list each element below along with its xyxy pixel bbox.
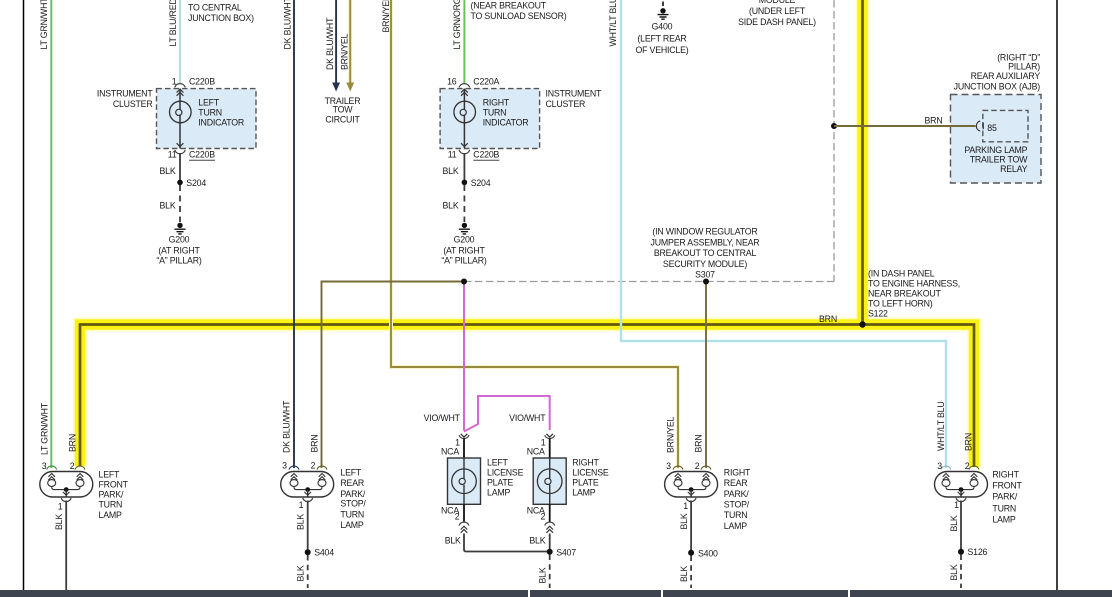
svg-text:11: 11 [168,150,177,160]
svg-text:PLATE: PLATE [572,477,599,487]
wire BLK below left front lamp [65,501,67,591]
svg-text:TURN: TURN [198,108,222,118]
connector C220A pin 16 arc (right cluster) [459,84,470,88]
node junction dot module line to BRN/VIO [461,279,467,285]
svg-text:“A” PILLAR): “A” PILLAR) [441,256,486,266]
svg-text:RIGHT: RIGHT [724,467,751,477]
svg-text:2: 2 [695,461,700,471]
wire BRN/YEL stub to trailer tow [346,0,354,92]
connector pin 85 arc [976,121,983,131]
svg-text:STOP/: STOP/ [724,500,750,510]
svg-text:BLK: BLK [296,565,306,581]
svg-text:3: 3 [666,461,671,471]
svg-text:C220B: C220B [473,150,499,160]
svg-text:BLK: BLK [159,166,175,176]
svg-text:BLK: BLK [529,536,545,546]
svg-text:LAMP: LAMP [340,520,363,530]
svg-text:BRN: BRN [694,435,704,453]
wire BRN to parking lamp relay pin 85 [834,125,976,127]
module internal dashed line horizontal [464,281,834,283]
svg-text:2: 2 [70,461,75,471]
svg-text:TO CENTRAL: TO CENTRAL [188,3,242,13]
svg-text:TURN: TURN [992,504,1016,514]
svg-text:TRAILER TOW: TRAILER TOW [970,154,1028,164]
svg-text:DK BLU/WHT: DK BLU/WHT [282,400,292,453]
svg-text:LEFT: LEFT [340,467,362,477]
svg-text:LT GRN/WHT: LT GRN/WHT [39,0,49,50]
svg-text:11: 11 [448,150,457,160]
svg-text:C220B: C220B [189,150,215,160]
svg-text:TURN: TURN [99,500,123,510]
svg-text:1: 1 [58,502,63,512]
svg-text:S307: S307 [695,269,715,279]
lamp LEFT LICENSE PLATE LAMP [448,434,481,505]
svg-text:LEFT: LEFT [198,98,220,108]
wire BLK dashed below S400 [690,556,692,589]
svg-text:S126: S126 [968,547,988,557]
svg-text:NCA: NCA [527,446,545,456]
node S122 junction dot [859,321,865,327]
svg-text:INSTRUMENT: INSTRUMENT [97,89,153,99]
svg-text:S400: S400 [698,548,718,558]
svg-text:BLK: BLK [679,566,689,582]
svg-text:(UNDER LEFT: (UNDER LEFT [749,6,806,16]
node junction dot on module line at relay branch [831,123,837,129]
svg-text:LAMP: LAMP [572,488,595,498]
svg-text:PARK/: PARK/ [724,489,750,499]
svg-text:3: 3 [42,461,47,471]
svg-text:WHT/LT BLU: WHT/LT BLU [936,402,946,451]
svg-text:JUNCTION BOX): JUNCTION BOX) [188,13,254,23]
svg-text:(IN WINDOW REGULATOR: (IN WINDOW REGULATOR [652,227,757,237]
svg-text:INDICATOR: INDICATOR [483,118,529,128]
svg-text:16: 16 [447,76,457,86]
svg-text:WHT/LT BLU: WHT/LT BLU [608,0,618,47]
svg-text:S204: S204 [186,178,206,188]
svg-text:C220A: C220A [473,76,499,86]
wire DK BLU/WHT vertical long [293,0,295,468]
instrument cluster U1 box (left) [157,89,257,149]
wire BLK dashed to G200 (left) [179,185,181,222]
ground G200 (right) [459,223,470,234]
svg-text:BREAKOUT TO CENTRAL: BREAKOUT TO CENTRAL [654,248,757,258]
svg-text:LICENSE: LICENSE [487,467,524,477]
svg-text:1: 1 [299,500,304,510]
lamp LEFT TURN INDICATOR internals [170,89,192,149]
svg-text:TO ENGINE HARNESS,: TO ENGINE HARNESS, [868,279,960,289]
svg-text:RELAY: RELAY [1000,164,1028,174]
svg-text:BLK: BLK [54,514,64,530]
svg-text:(AT RIGHT: (AT RIGHT [158,245,200,255]
svg-text:CIRCUIT: CIRCUIT [325,115,360,125]
frame left border line [23,0,25,590]
svg-text:BLK: BLK [296,514,306,530]
wire BLK from right license lamp to S407 [549,534,551,552]
svg-text:(AT RIGHT: (AT RIGHT [443,245,485,255]
wire BRN from S307 to right rear lamp pin2 [705,282,707,469]
node S400 [688,550,694,556]
svg-text:85: 85 [987,123,997,133]
svg-text:BRN/YEL: BRN/YEL [666,416,676,453]
wire WHT/LT BLU to right front lamp pin3 [621,0,946,468]
svg-text:2: 2 [965,461,970,471]
svg-text:TO LEFT HORN): TO LEFT HORN) [868,299,933,309]
svg-text:2: 2 [311,461,316,471]
module internal dashed line vertical [833,0,835,282]
lamp RIGHT TURN INDICATOR internals [454,89,476,149]
svg-text:INDICATOR: INDICATOR [198,118,244,128]
lamp LEFT REAR PARK/STOP/TURN LAMP [281,466,334,501]
svg-text:BRN/YEL: BRN/YEL [340,33,350,70]
wire highlighted BRN (yellow) net: left front lamp pin2 to right front lamp pin2 and up [80,0,974,467]
connector C220B pin 1 arc (left cluster) [175,84,186,88]
node S204 (left) [177,180,183,186]
svg-text:SECURITY MODULE): SECURITY MODULE) [663,259,747,269]
svg-text:TURN: TURN [340,509,364,519]
svg-text:(LEFT REAR: (LEFT REAR [637,34,686,44]
svg-text:JUNCTION BOX (AJB): JUNCTION BOX (AJB) [954,81,1041,91]
svg-text:FRONT: FRONT [992,481,1022,491]
wire LT GRN/WHT vertical [50,0,52,468]
svg-text:FRONT: FRONT [99,480,129,490]
wire BRN from module to left rear lamp pin2 [322,282,465,469]
svg-text:CLUSTER: CLUSTER [113,99,153,109]
node S407 [547,549,553,555]
svg-text:S404: S404 [314,548,334,558]
svg-text:OF VEHICLE): OF VEHICLE) [635,45,688,55]
svg-text:MODULE: MODULE [759,0,796,5]
wire BLK below right front lamp [960,501,962,552]
svg-text:CLUSTER: CLUSTER [546,99,586,109]
svg-text:PARK/: PARK/ [992,492,1018,502]
wire DK BLU/WHT stub to trailer tow [332,0,340,92]
svg-text:BRN: BRN [819,314,837,324]
connector pin 2 of left license lamp [459,504,469,533]
wire BLK below right cluster [463,153,465,182]
svg-text:BLK: BLK [442,166,458,176]
wire BLK from left license lamp to S407 [464,534,548,552]
svg-text:BRN: BRN [310,435,320,453]
svg-text:BRN/YEL: BRN/YEL [381,0,391,33]
svg-text:LEFT: LEFT [487,458,509,468]
svg-text:S407: S407 [556,547,576,557]
svg-text:2: 2 [540,512,545,522]
svg-text:RIGHT: RIGHT [483,98,510,108]
svg-text:DK BLU/WHT: DK BLU/WHT [325,17,335,70]
wire BLK dashed below S404 [307,555,309,588]
svg-text:LAMP: LAMP [99,510,122,520]
svg-text:REAR AUXILIARY: REAR AUXILIARY [971,71,1041,81]
svg-text:PLATE: PLATE [487,477,514,487]
svg-text:LEFT: LEFT [99,470,121,480]
svg-text:TOW: TOW [333,105,354,115]
svg-text:BLK: BLK [949,515,959,531]
wire BLK dashed below S126 [960,555,962,589]
svg-text:G200: G200 [454,235,475,245]
frame bottom bar [0,590,1112,597]
svg-text:1: 1 [172,76,177,86]
svg-text:BLK: BLK [159,201,175,211]
svg-text:LT GRN/ORG: LT GRN/ORG [452,0,462,50]
svg-text:“A” PILLAR): “A” PILLAR) [156,256,201,266]
lamp LEFT FRONT PARK/TURN LAMP [40,466,93,501]
svg-text:TO SUNLOAD SENSOR): TO SUNLOAD SENSOR) [471,11,567,21]
svg-text:DK BLU/WHT: DK BLU/WHT [283,0,293,50]
svg-text:NEAR BREAKOUT: NEAR BREAKOUT [868,289,942,299]
frame right border line [1056,0,1058,590]
svg-text:C220B: C220B [189,76,215,86]
svg-text:(NEAR BREAKOUT: (NEAR BREAKOUT [471,1,547,11]
svg-text:1: 1 [954,500,959,510]
wire BLK dashed below S407 [549,555,551,589]
wire LT BLU/RED vertical [179,0,181,83]
svg-text:BRN: BRN [68,434,78,452]
wire BLK below left cluster [179,153,181,182]
node S404 [305,549,311,555]
svg-text:LAMP: LAMP [487,488,510,498]
wire BLK dashed to G200 (right) [463,185,465,222]
svg-text:LT BLU/RED: LT BLU/RED [168,0,178,47]
wire VIO/WHT to left license plate lamp [463,282,465,431]
svg-text:G200: G200 [169,235,190,245]
svg-text:LAMP: LAMP [724,521,747,531]
svg-text:NCA: NCA [441,446,459,456]
svg-text:RIGHT: RIGHT [992,470,1019,480]
svg-text:PARK/: PARK/ [99,490,125,500]
wire BLK below left rear lamp [307,501,309,553]
svg-text:VIO/WHT: VIO/WHT [509,413,546,423]
svg-text:SIDE DASH PANEL): SIDE DASH PANEL) [738,17,816,27]
node S126 [958,549,964,555]
ground G200 (left) [175,223,186,234]
instrument cluster U2 box (right) [440,89,539,149]
lamp RIGHT LICENSE PLATE LAMP [533,434,566,505]
wire BRN/YEL to right rear lamp pin3 [391,0,678,468]
relay U3 PARKING LAMP TRAILER TOW RELAY inner box [983,110,1028,141]
svg-text:BLK: BLK [442,201,458,211]
svg-text:(IN DASH PANEL: (IN DASH PANEL [868,269,935,279]
svg-text:BLK: BLK [679,513,689,529]
svg-text:LT GRN/WHT: LT GRN/WHT [39,402,49,455]
wire BLK below right rear lamp [690,501,692,553]
wire LT GRN/ORG vertical [463,0,465,83]
svg-text:BLK: BLK [538,567,548,583]
svg-text:REAR: REAR [340,478,364,488]
wire VIO/WHT branch to right license plate lamp [464,396,550,432]
svg-text:TURN: TURN [483,108,507,118]
svg-text:LICENSE: LICENSE [572,467,609,477]
svg-text:VIO/WHT: VIO/WHT [424,413,461,423]
svg-text:BLK: BLK [949,564,959,580]
connector C220B pin 11 arc (left cluster) [175,150,186,154]
svg-text:3: 3 [937,461,942,471]
ground G400 [658,2,669,20]
svg-text:STOP/: STOP/ [340,499,366,509]
svg-text:2: 2 [455,512,460,522]
svg-text:JUMPER ASSEMBLY, NEAR: JUMPER ASSEMBLY, NEAR [651,237,760,247]
svg-text:3: 3 [282,461,287,471]
svg-text:PARK/: PARK/ [340,489,366,499]
node S204 (right) [462,180,468,186]
lamp RIGHT REAR PARK/STOP/TURN LAMP [665,466,718,501]
svg-text:BRN: BRN [964,433,974,451]
svg-text:RIGHT: RIGHT [572,458,599,468]
svg-text:S122: S122 [868,309,888,319]
svg-text:BLK: BLK [445,536,461,546]
relay box: rear auxiliary junction box (AJB) [951,95,1042,184]
svg-text:G400: G400 [652,22,673,32]
svg-text:LAMP: LAMP [992,515,1015,525]
svg-text:1: 1 [683,501,688,511]
svg-text:REAR: REAR [724,478,748,488]
svg-text:S204: S204 [471,178,491,188]
connector C220B pin 11 arc (right cluster) [459,150,470,154]
svg-text:INSTRUMENT: INSTRUMENT [546,89,602,99]
lamp RIGHT FRONT PARK/TURN LAMP [935,466,988,501]
node S307 junction dot [703,279,709,285]
connector pin 2 of right license lamp [545,504,555,533]
svg-text:BRN: BRN [925,115,943,125]
svg-text:TURN: TURN [724,510,748,520]
